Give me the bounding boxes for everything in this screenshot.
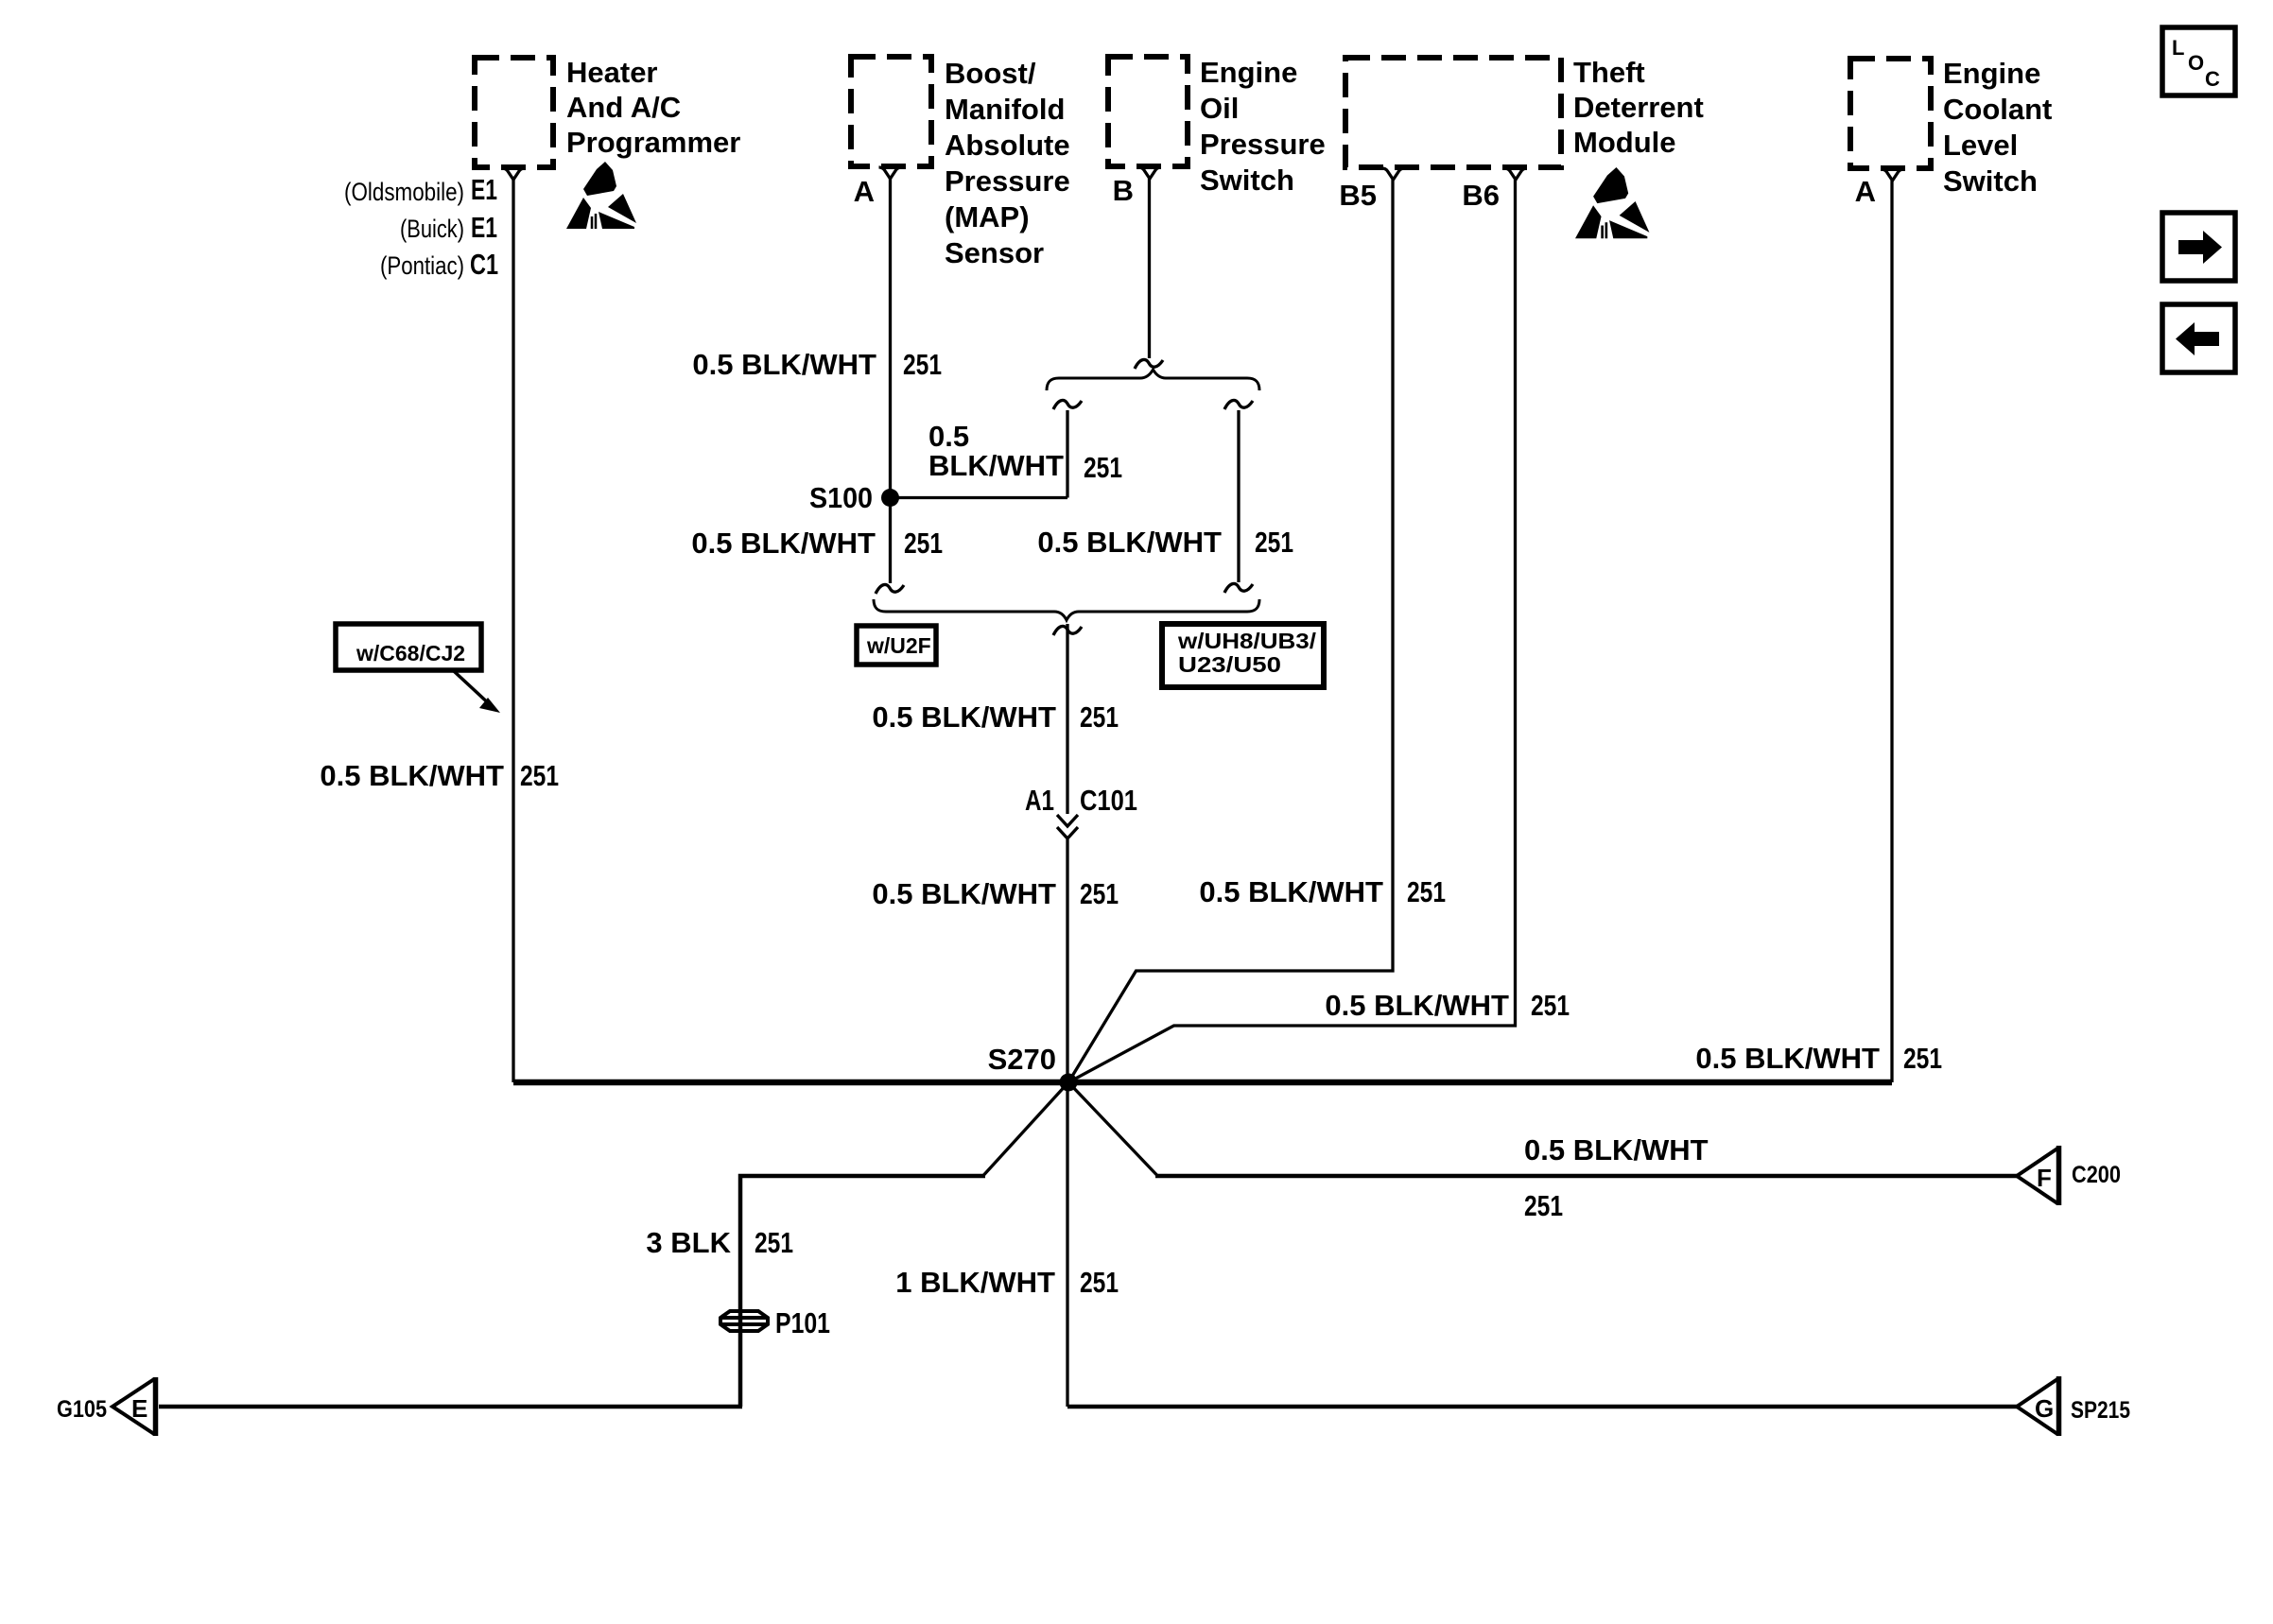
under-brace gathering MAP wire and right branch <box>874 599 1259 620</box>
svg-text:C: C <box>2205 67 2220 91</box>
page icon arrow-left box <box>2162 304 2235 372</box>
svg-text:251: 251 <box>1524 1189 1563 1222</box>
wire: from under-brace down to C101 connector <box>1066 624 1068 814</box>
svg-text:1 BLK/WHT: 1 BLK/WHT <box>895 1266 1055 1299</box>
svg-text:Deterrent: Deterrent <box>1573 91 1704 124</box>
svg-text:w/UH8/UB3/: w/UH8/UB3/ <box>1177 629 1317 653</box>
wire: Theft module pin B6 down, left, diagonal to S270 <box>1068 180 1516 1082</box>
svg-text:C101: C101 <box>1080 784 1137 817</box>
svg-text:0.5 BLK/WHT: 0.5 BLK/WHT <box>1325 989 1509 1022</box>
svg-text:B5: B5 <box>1339 179 1377 212</box>
svg-text:0.5 BLK/WHT: 0.5 BLK/WHT <box>1524 1133 1709 1166</box>
svg-text:251: 251 <box>1531 989 1570 1022</box>
svg-text:251: 251 <box>520 759 559 792</box>
svg-text:0.5: 0.5 <box>928 420 969 453</box>
in-line connector C101 chevron upper <box>1057 815 1078 826</box>
svg-text:0.5 BLK/WHT: 0.5 BLK/WHT <box>1199 875 1383 908</box>
svg-text:Engine: Engine <box>1200 56 1297 89</box>
pin terminal Y at MAP Sensor pin A <box>879 167 902 179</box>
svg-text:And A/C: And A/C <box>566 91 681 124</box>
svg-text:0.5 BLK/WHT: 0.5 BLK/WHT <box>1695 1042 1880 1075</box>
svg-text:(Buick): (Buick) <box>400 215 464 243</box>
wire: Heater Programmer pin E1/C1 down to splice bus <box>512 180 514 1082</box>
svg-text:251: 251 <box>755 1226 793 1259</box>
svg-text:Oil: Oil <box>1200 92 1239 125</box>
wire: S100 branch vertical up to brace left leg <box>1066 410 1068 498</box>
svg-text:A: A <box>1855 175 1876 208</box>
pin terminal Y at Theft Deterrent Module pin B6 <box>1504 168 1527 180</box>
svg-text:w/C68/CJ2: w/C68/CJ2 <box>356 641 465 665</box>
svg-text:E1: E1 <box>471 211 497 244</box>
label box w/UH8/UB3/U23/U50 <box>1162 624 1324 687</box>
svg-text:0.5 BLK/WHT: 0.5 BLK/WHT <box>872 700 1056 734</box>
wire continuation tilde at right branch top <box>1224 400 1253 409</box>
splice dot S270 <box>1060 1074 1078 1092</box>
svg-text:0.5 BLK/WHT: 0.5 BLK/WHT <box>320 759 504 792</box>
wire: from C101 down through S270 to bottom run <box>1066 839 1068 1407</box>
connector box: Theft Deterrent Module <box>1345 58 1561 167</box>
pin terminal Y at Oil Pressure Switch pin B <box>1138 167 1161 179</box>
page icon arrow-right box <box>2162 213 2235 281</box>
svg-text:251: 251 <box>1255 526 1293 559</box>
leader arrow from w/C68/CJ2 box to Heater wire <box>454 671 493 707</box>
svg-text:Switch: Switch <box>1943 164 2038 198</box>
page icon LOC box top right <box>2162 27 2235 95</box>
connector box: Engine Coolant Level Switch <box>1850 59 1931 168</box>
svg-text:BLK/WHT: BLK/WHT <box>928 449 1064 482</box>
svg-text:C200: C200 <box>2072 1162 2121 1188</box>
pin terminal Y at Theft Deterrent Module pin B5 <box>1382 168 1405 180</box>
svg-text:Switch: Switch <box>1200 164 1294 197</box>
svg-text:Absolute: Absolute <box>945 129 1070 162</box>
svg-text:Boost/: Boost/ <box>945 57 1036 90</box>
wire: thick splice bus through S270 <box>513 1080 1892 1086</box>
svg-text:C1: C1 <box>470 248 498 281</box>
svg-text:(Pontiac): (Pontiac) <box>380 251 464 280</box>
svg-text:SP215: SP215 <box>2071 1397 2130 1424</box>
grommet P101 <box>720 1311 768 1331</box>
svg-text:L: L <box>2172 36 2184 60</box>
svg-text:251: 251 <box>1080 877 1119 910</box>
svg-text:F: F <box>2037 1164 2052 1192</box>
svg-text:251: 251 <box>1080 700 1119 734</box>
pin terminal Y at Coolant Level Switch pin A <box>1882 169 1904 181</box>
wire continuation tilde at Oil switch wire bottom <box>1135 359 1163 369</box>
wire: SP215 run from main leg to triangle G <box>1067 1405 2017 1409</box>
wire: Theft module pin B5 down, left, diagonal to S270 <box>1068 180 1393 1082</box>
svg-text:251: 251 <box>903 348 942 381</box>
svg-text:G105: G105 <box>57 1396 107 1423</box>
wire: right branch under over-brace <box>1237 410 1240 582</box>
svg-text:251: 251 <box>1407 875 1446 908</box>
svg-text:0.5 BLK/WHT: 0.5 BLK/WHT <box>1037 526 1222 559</box>
svg-text:G: G <box>2035 1394 2054 1423</box>
wire: G105 ground run from triangle E to P101 leg <box>159 1405 742 1409</box>
wire continuation tilde at branch top <box>1053 400 1082 409</box>
svg-text:B6: B6 <box>1462 179 1500 212</box>
label box w/C68/CJ2 <box>336 624 481 670</box>
svg-text:Theft: Theft <box>1573 56 1645 89</box>
svg-text:E1: E1 <box>471 173 497 206</box>
svg-text:A: A <box>854 175 875 208</box>
svg-text:E: E <box>131 1394 147 1423</box>
svg-text:0.5 BLK/WHT: 0.5 BLK/WHT <box>872 877 1056 910</box>
splice dot S100 <box>881 489 899 507</box>
svg-text:Programmer: Programmer <box>566 126 740 159</box>
svg-text:(MAP): (MAP) <box>945 200 1030 233</box>
wire: S270 diagonal to C200 run <box>1068 1082 1157 1176</box>
wire: Oil Pressure Switch pin B down to over-brace <box>1148 179 1151 358</box>
svg-text:251: 251 <box>1084 451 1122 484</box>
connector box: Heater And A/C Programmer <box>475 58 553 167</box>
svg-text:Sensor: Sensor <box>945 236 1044 269</box>
svg-text:S270: S270 <box>988 1043 1056 1076</box>
svg-text:S100: S100 <box>809 481 873 514</box>
connector box: Boost/MAP Sensor <box>851 57 931 166</box>
svg-text:0.5 BLK/WHT: 0.5 BLK/WHT <box>692 348 876 381</box>
svg-text:Engine: Engine <box>1943 57 2040 90</box>
svg-text:0.5 BLK/WHT: 0.5 BLK/WHT <box>691 527 876 560</box>
svg-text:251: 251 <box>1080 1266 1119 1299</box>
svg-text:Heater: Heater <box>566 56 658 89</box>
svg-text:U23/U50: U23/U50 <box>1178 652 1281 677</box>
svg-text:Pressure: Pressure <box>1200 128 1326 161</box>
wire: S270 diagonal to P101 run <box>983 1082 1068 1176</box>
svg-text:Module: Module <box>1573 126 1676 159</box>
wire: Coolant Level Switch pin A down to splice bus <box>1890 181 1893 1082</box>
label box w/U2F <box>857 626 936 665</box>
wire continuation tilde at MAP wire bottom <box>876 584 904 594</box>
over-brace joining branch wires under Oil switch wire <box>1047 370 1259 390</box>
svg-text:w/U2F: w/U2F <box>866 633 931 658</box>
connector box: Engine Oil Pressure Switch <box>1108 57 1188 166</box>
wire: S100 branch horizontal to right <box>891 496 1068 499</box>
svg-text:Pressure: Pressure <box>945 164 1070 198</box>
svg-text:P101: P101 <box>775 1306 830 1339</box>
wire continuation tilde below under-brace cusp <box>1053 626 1082 635</box>
svg-text:Coolant: Coolant <box>1943 93 2052 126</box>
svg-text:A1: A1 <box>1025 784 1054 817</box>
svg-text:251: 251 <box>904 527 943 560</box>
svg-text:251: 251 <box>1903 1042 1942 1075</box>
wire continuation tilde at right branch bottom <box>1224 583 1253 593</box>
off-page triangle G to SP215 <box>2017 1376 2059 1436</box>
svg-text:3 BLK: 3 BLK <box>646 1226 731 1259</box>
svg-text:Manifold: Manifold <box>945 93 1065 126</box>
svg-text:(Oldsmobile): (Oldsmobile) <box>344 178 464 206</box>
ESD symbol beside Theft Deterrent Module label <box>1575 167 1649 238</box>
svg-text:B: B <box>1113 174 1134 207</box>
off-page triangle F to C200 <box>2017 1146 2059 1205</box>
in-line connector C101 chevron lower <box>1057 827 1078 838</box>
pin terminal Y at Heater Programmer pin <box>502 168 525 180</box>
ESD symbol below Heater Programmer label <box>566 162 636 229</box>
off-page triangle E to G105 <box>113 1377 156 1436</box>
wire: MAP sensor pin A down to S100 and on to brace <box>889 179 892 583</box>
svg-text:O: O <box>2188 51 2204 75</box>
svg-text:Level: Level <box>1943 129 2018 162</box>
